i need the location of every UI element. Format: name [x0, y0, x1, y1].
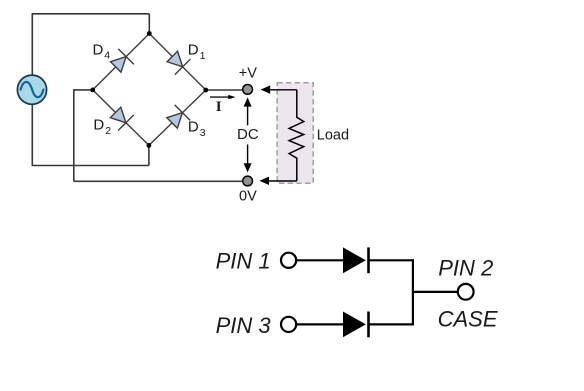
label PIN 3: [216, 313, 272, 338]
svg-text:2: 2: [105, 125, 111, 137]
diode D3: [164, 105, 190, 131]
wire: bottom horizontal run to bridge: [32, 165, 149, 167]
wire: left node drop: [73, 89, 75, 181]
wire: junction to pin2: [413, 291, 459, 293]
wire: junction riser: [412, 259, 414, 325]
wire: top horizontal run to bridge: [32, 13, 150, 15]
wire: riser into bridge bottom node: [148, 145, 150, 165]
diode D2: [108, 105, 134, 131]
node: bridge bottom junction: [147, 143, 152, 148]
wire: diode to junction riser: [369, 259, 414, 261]
label D1: [188, 42, 206, 62]
svg-text:Load: Load: [317, 128, 349, 144]
wire: pin3 to diode: [297, 323, 344, 325]
wire: diode to junction riser (pin3): [369, 323, 414, 325]
svg-text:D: D: [93, 117, 104, 134]
wire: bridge edge left-bottom: [93, 90, 149, 145]
svg-text:+V: +V: [239, 65, 257, 81]
label 0V: [239, 189, 257, 205]
current arrow I: [210, 95, 236, 99]
label D3: [188, 119, 206, 139]
wire: drop into bridge top node: [148, 14, 150, 34]
DC arrow up: [244, 97, 252, 125]
diode (pin3 branch): [343, 312, 369, 338]
label +V: [239, 65, 257, 81]
svg-text:PIN 2: PIN 2: [438, 255, 493, 280]
diode D1: [165, 49, 191, 75]
svg-text:D: D: [188, 119, 199, 136]
load resistor: [289, 90, 304, 181]
diode D4: [108, 49, 134, 75]
arrow: load to 0V: [259, 177, 296, 185]
pin 3 circle: [281, 317, 296, 332]
label Load: [317, 128, 349, 144]
svg-text:4: 4: [104, 50, 110, 62]
svg-text:DC: DC: [237, 126, 259, 143]
wire: AC source bottom lead down: [31, 104, 33, 166]
arrow: load to +V: [261, 85, 297, 93]
load dashed box: [277, 83, 313, 184]
label D4: [93, 41, 111, 61]
svg-text:CASE: CASE: [438, 307, 498, 332]
wire: bridge edge bottom-right: [149, 90, 206, 145]
node: bridge top junction: [147, 31, 152, 36]
node: bridge right junction: [203, 88, 208, 93]
wire: AC source top lead up: [31, 14, 33, 76]
label PIN 2: [438, 255, 493, 280]
wire: pin1 to diode: [297, 259, 344, 261]
label D2: [93, 117, 111, 137]
wire: bridge edge top-right: [149, 34, 206, 91]
terminal +V: [243, 85, 253, 95]
svg-text:0V: 0V: [239, 189, 257, 205]
pin 1 circle: [281, 253, 296, 268]
DC arrow down: [244, 145, 252, 173]
svg-text:D: D: [93, 41, 104, 58]
svg-text:D: D: [188, 42, 199, 59]
svg-text:PIN 3: PIN 3: [216, 313, 272, 338]
svg-text:I: I: [216, 99, 222, 115]
diode (pin1 branch): [343, 247, 369, 273]
node: bridge left junction: [90, 88, 95, 93]
wire: run to 0V terminal: [74, 180, 248, 182]
label I: [216, 99, 222, 115]
label PIN 1: [216, 249, 271, 274]
label DC: [237, 126, 259, 143]
svg-text:PIN 1: PIN 1: [216, 249, 271, 274]
label CASE: [438, 307, 498, 332]
AC voltage source: [17, 75, 46, 104]
wire: bridge edge left-top: [93, 34, 150, 90]
terminal 0V: [243, 176, 253, 186]
svg-text:1: 1: [200, 50, 206, 62]
wire: right node to +V terminal: [206, 89, 248, 91]
pin 2 / case circle: [458, 284, 474, 300]
svg-text:3: 3: [200, 127, 206, 139]
wire: left node stub: [74, 89, 93, 91]
